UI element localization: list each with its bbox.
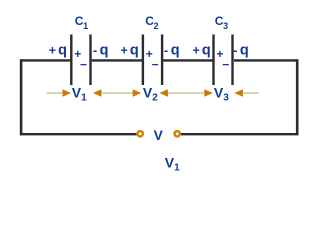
battery terminal (left) — [138, 131, 143, 136]
svg-text:V1: V1 — [165, 154, 180, 173]
capacitor C1 plates — [71, 35, 90, 86]
svg-text:-q: -q — [93, 43, 109, 59]
svg-text:V: V — [154, 128, 164, 143]
svg-text:+q: +q — [193, 43, 211, 59]
svg-text:V1: V1 — [72, 84, 87, 103]
voltage arrow into V1 from right / tail toward V2 — [93, 89, 141, 97]
wire: between C2 and C3 — [163, 59, 213, 61]
battery terminal (right) — [175, 131, 180, 136]
svg-text:−: − — [222, 58, 229, 72]
wire: left vertical — [20, 59, 23, 135]
wire: right vertical — [296, 59, 299, 135]
svg-text:+q: +q — [121, 43, 139, 59]
wire: bottom-left segment — [20, 133, 137, 135]
wire: top-left segment — [21, 59, 70, 61]
wire: between C1 and C2 — [92, 59, 143, 61]
svg-text:+q: +q — [49, 43, 67, 59]
voltage arrow into V1 from left — [46, 89, 71, 97]
svg-text:V3: V3 — [214, 84, 229, 103]
capacitor C3 plates — [214, 35, 233, 86]
wire: top-right segment — [234, 59, 297, 61]
svg-text:−: − — [152, 58, 159, 72]
svg-text:−: − — [80, 58, 87, 72]
svg-text:C2: C2 — [145, 14, 158, 31]
svg-text:C1: C1 — [75, 14, 88, 31]
wire: bottom-right segment — [181, 133, 298, 135]
svg-text:C3: C3 — [215, 14, 228, 31]
svg-text:-q: -q — [164, 43, 180, 59]
capacitor C2 plates — [143, 35, 162, 86]
voltage arrows between V2 and V3 — [159, 89, 213, 97]
voltage arrow into V3 from right — [234, 89, 259, 97]
svg-text:V2: V2 — [143, 84, 158, 103]
svg-text:-q: -q — [233, 43, 249, 59]
